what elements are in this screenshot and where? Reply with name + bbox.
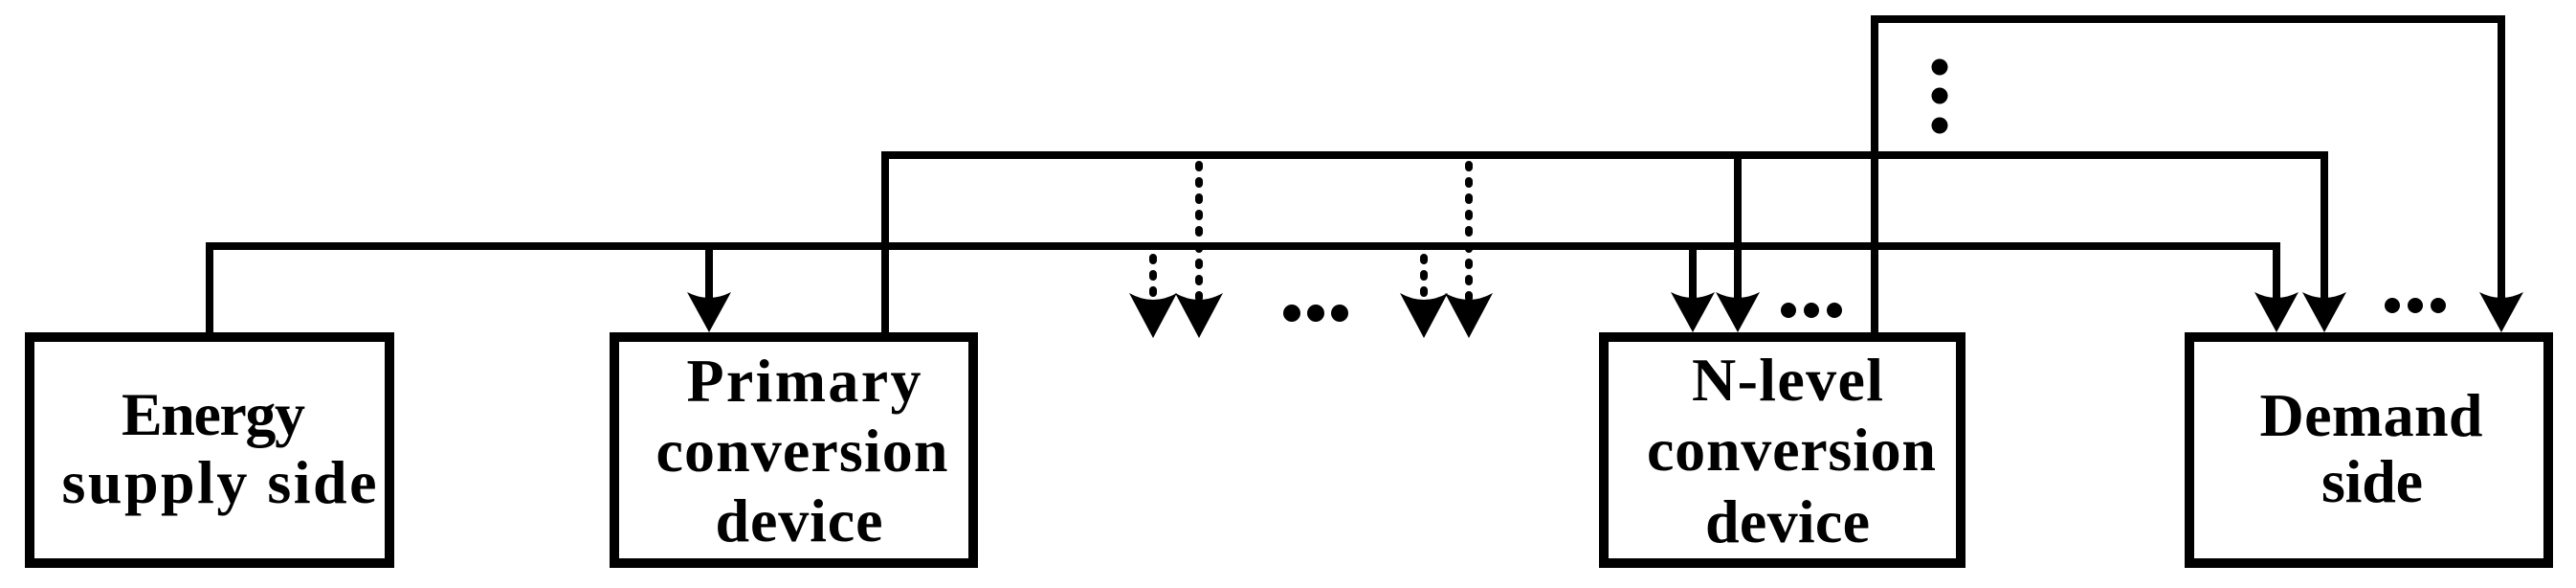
dashed wire: bus B to intermediate device (right pair, short): [1420, 250, 1428, 308]
dashed wire: bus A to intermediate device (right pair, long): [1465, 155, 1473, 308]
arrowhead: bus A into Demand side: [2302, 292, 2346, 332]
ellipsis: horizontal dots above N-level conversion device: [1781, 303, 1842, 318]
box: Primary conversion device: [614, 337, 973, 563]
svg-text:Primary: Primary: [687, 347, 922, 415]
arrowhead: into Primary conversion device: [687, 292, 731, 332]
svg-text:Demand: Demand: [2260, 381, 2483, 449]
svg-text:N-level: N-level: [1692, 346, 1883, 414]
arrowhead: bus B into N-level conversion device: [1671, 292, 1715, 332]
box: Demand side: [2189, 337, 2548, 563]
svg-text:device: device: [716, 486, 883, 554]
ellipsis: horizontal dots between dashed arrow pairs: [1283, 305, 1348, 322]
box: Energy supply side: [30, 337, 389, 563]
svg-text:conversion: conversion: [1647, 416, 1936, 484]
arrowhead: bus B into Demand side: [2254, 292, 2298, 332]
arrowhead: dashed left pair long: [1175, 293, 1223, 338]
box: N-level conversion device: [1604, 337, 1961, 563]
svg-text:Energy: Energy: [122, 380, 305, 448]
svg-text:conversion: conversion: [656, 417, 948, 485]
arrowhead: bus A into N-level conversion device: [1716, 292, 1760, 332]
ellipsis: horizontal dots above Demand side: [2385, 298, 2446, 313]
wire: bus A from Primary conversion device output across to Demand side: [885, 155, 2324, 337]
wire: bus B arrow into N-level conversion device: [1689, 246, 1697, 304]
wire: bus B from Energy supply side across to Demand side: [210, 246, 2276, 337]
arrowhead: dashed left pair short: [1129, 293, 1177, 338]
ellipsis: vertical dots inside top loop: [1932, 59, 1948, 134]
svg-text:device: device: [1705, 487, 1870, 555]
wire: bus B arrow into Primary conversion device: [705, 246, 713, 304]
arrowhead: dashed right pair long: [1445, 293, 1493, 338]
svg-text:side: side: [2321, 447, 2423, 515]
svg-text:supply side: supply side: [62, 448, 377, 516]
wire: bus A arrow into N-level conversion device: [1734, 155, 1742, 304]
dashed wire: bus B to intermediate device (left pair, short): [1149, 250, 1157, 308]
arrowhead: dashed right pair short: [1400, 293, 1448, 338]
wire: top distribution line from N-level box up, across, down to Demand side: [1875, 19, 2501, 337]
arrowhead: top line into Demand side: [2479, 292, 2523, 332]
dashed wire: bus A to intermediate device (left pair, long): [1195, 155, 1203, 308]
